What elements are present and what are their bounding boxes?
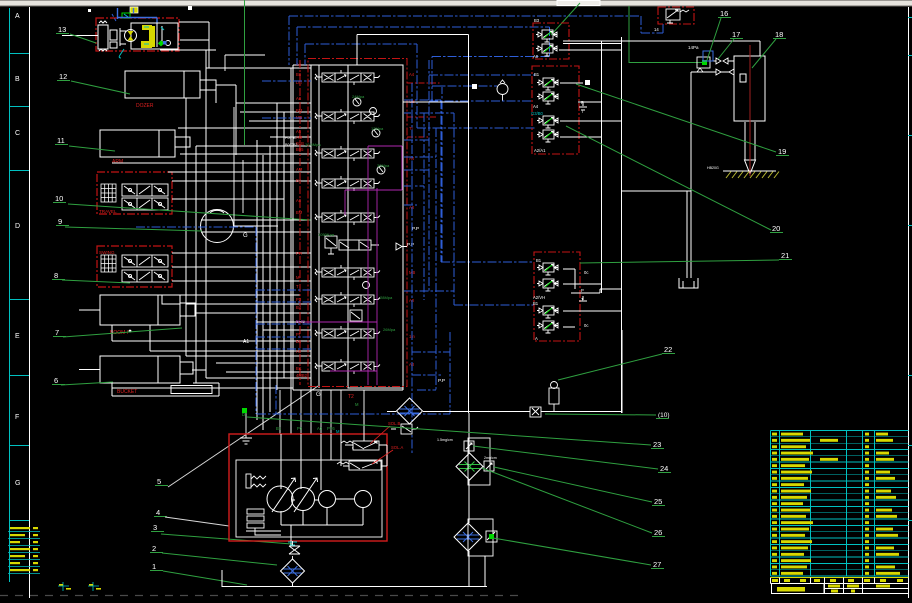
svg-text:BM: BM	[296, 210, 303, 215]
svg-text:P.P: P.P	[438, 378, 445, 384]
SOL labels	[388, 421, 404, 450]
revision marks bottom-left	[8, 527, 40, 574]
svg-text:9: 9	[58, 217, 62, 226]
svg-text:A4: A4	[409, 72, 415, 77]
valve block PT red box	[532, 66, 579, 154]
svg-text:24Mpa: 24Mpa	[352, 94, 365, 99]
swing motor circle	[201, 210, 234, 243]
svg-text:14: 14	[654, 27, 659, 32]
svg-text:A: A	[15, 13, 20, 20]
svg-text:30Mpa: 30Mpa	[377, 163, 390, 168]
unit 10 spools	[122, 184, 168, 196]
cyl6 tail boxes	[112, 383, 219, 396]
hammer feed line	[569, 41, 760, 72]
svg-text:B05: B05	[296, 147, 304, 152]
svg-text:A5: A5	[296, 129, 302, 134]
svg-text:2mg/cm: 2mg/cm	[484, 456, 497, 460]
check valve (10)	[530, 407, 541, 417]
svg-text:3: 3	[153, 523, 157, 532]
unit 13 cyan bits	[119, 27, 164, 58]
wire horizontals to manifold	[112, 22, 311, 388]
svg-text:2: 2	[152, 544, 156, 553]
svg-text:0c: 0c	[584, 323, 588, 328]
svg-text:BHC: BHC	[296, 319, 305, 324]
svg-text:A0: A0	[533, 54, 539, 59]
frame left white border	[29, 7, 31, 598]
svg-text:ARM: ARM	[112, 159, 123, 165]
bottom main lines	[222, 330, 622, 587]
svg-text:G: G	[243, 233, 248, 239]
balloon 10 leader	[53, 194, 311, 220]
manifold right port labels	[409, 72, 415, 367]
svg-text:AM: AM	[296, 167, 303, 172]
svg-text:1.5mg/cm: 1.5mg/cm	[437, 438, 453, 442]
svg-text:B3: B3	[534, 18, 540, 23]
pressure gauge circle	[497, 80, 508, 101]
check valves pair	[716, 58, 734, 75]
svg-text:21: 21	[781, 251, 789, 260]
manifold green value labels	[305, 94, 396, 332]
cyl7 left stub	[79, 309, 100, 311]
balloon 16 leader	[707, 9, 731, 60]
title block bottom	[772, 584, 909, 594]
tank return right	[622, 72, 698, 288]
svg-text:24: 24	[660, 464, 668, 473]
svg-text:4MB2: 4MB2	[296, 373, 308, 378]
pump circles	[267, 478, 372, 512]
manifold envelope	[293, 65, 403, 390]
svg-text:T2: T2	[348, 394, 354, 400]
svg-text:SOL.A: SOL.A	[391, 445, 404, 450]
manifold small relief valves	[350, 98, 407, 321]
svg-text:HB20G: HB20G	[707, 166, 719, 170]
magenta pilot lines	[305, 146, 402, 385]
cyl6 left stub	[79, 369, 100, 371]
gauge 14Pa	[697, 57, 710, 68]
balloon 11 leader	[55, 136, 115, 151]
unit 13 internals	[62, 21, 178, 51]
svg-text:(10): (10)	[658, 412, 670, 419]
svg-text:10.5Mpa: 10.5Mpa	[305, 142, 321, 147]
svg-text:TRAVEL: TRAVEL	[99, 209, 117, 214]
svg-text:B1: B1	[533, 301, 539, 306]
cylinder 12 body	[125, 71, 216, 98]
balloon 27 leader	[493, 538, 664, 569]
green stub box1	[551, 3, 580, 35]
valve block lower red box	[534, 252, 580, 341]
balloon 4 leader	[154, 508, 229, 526]
balloon 13 leader	[56, 25, 96, 43]
svg-text:8: 8	[54, 271, 58, 280]
white mark top	[188, 6, 192, 10]
svg-text:A2/A1: A2/A1	[534, 148, 546, 153]
unit 13 green valve	[158, 40, 164, 46]
table header row	[771, 577, 909, 579]
manifold red border	[308, 59, 407, 387]
svg-text:D: D	[15, 223, 20, 230]
B3 valves	[536, 30, 557, 56]
svg-text:A8: A8	[296, 96, 302, 101]
unit 13 blue feed lines	[117, 8, 157, 23]
cylinder 6 body	[100, 356, 193, 383]
svg-text:22: 22	[664, 345, 672, 354]
svg-text:7: 7	[55, 328, 59, 337]
svg-text:PI: PI	[296, 332, 300, 337]
balloon 7 leader	[53, 328, 182, 337]
T to tank below pump	[288, 542, 297, 545]
filter F1 return	[456, 453, 483, 480]
bottom gray dashed line	[0, 595, 520, 597]
svg-text:BUCKET: BUCKET	[117, 389, 137, 395]
balloon 20 leader	[566, 126, 783, 233]
blue pilot lines right	[404, 60, 535, 455]
svg-text:BM: BM	[296, 108, 303, 113]
svg-text:B: B	[15, 76, 20, 83]
manifold red dash stubs right	[407, 83, 441, 137]
balloon 3 leader	[151, 523, 292, 544]
svg-text:F: F	[15, 414, 19, 421]
node G box	[225, 55, 278, 226]
BOM table grid	[771, 431, 909, 577]
filter F4 pilot	[397, 398, 423, 424]
svg-text:A1: A1	[296, 349, 302, 354]
svg-text:16: 16	[720, 9, 728, 18]
ground line + hatch	[723, 170, 776, 172]
svg-text:AM: AM	[296, 135, 303, 140]
filter F3 suction	[281, 559, 305, 583]
green line top-left	[244, 0, 246, 145]
right main verticals	[357, 35, 622, 414]
unit 13 red box	[96, 18, 179, 51]
balloon 17 leader	[718, 30, 743, 59]
balloon 19 leader	[576, 84, 789, 156]
svg-text:5: 5	[157, 477, 161, 486]
BOM yellow text blobs	[772, 433, 900, 575]
frame left cyan border	[9, 8, 11, 582]
svg-text:P: P	[581, 100, 584, 105]
svg-text:T: T	[296, 284, 299, 289]
main relief row	[325, 236, 379, 254]
blue pilot lines top	[289, 16, 663, 128]
balloon 18 leader	[752, 30, 786, 68]
pressure switch 25	[484, 461, 494, 471]
svg-text:A8: A8	[296, 198, 302, 203]
svg-text:28Mpa: 28Mpa	[380, 295, 393, 300]
svg-text:17: 17	[732, 30, 740, 39]
svg-text:27: 27	[653, 560, 661, 569]
cylinder 7 body	[100, 295, 195, 325]
wire verticals left bus	[112, 22, 293, 434]
svg-text:14Pa: 14Pa	[688, 45, 699, 50]
balloon 2 leader	[150, 544, 277, 565]
svg-text:B4: B4	[296, 305, 302, 310]
pump port labels	[276, 402, 359, 431]
svg-text:PH: PH	[296, 251, 302, 256]
svg-text:11: 11	[57, 136, 65, 145]
top-right solenoid red box	[658, 7, 694, 24]
svg-text:Dr: Dr	[242, 412, 247, 417]
svg-text:DOZER: DOZER	[136, 103, 154, 109]
svg-text:19: 19	[778, 147, 786, 156]
filter F2 drain	[454, 523, 482, 551]
pump red box	[229, 434, 387, 541]
balloon 24 leader	[473, 446, 671, 473]
bypass valve 27	[486, 531, 497, 542]
top scrollbar	[0, 0, 912, 7]
svg-text:A: A	[535, 336, 538, 341]
balloon 22 leader	[558, 345, 675, 380]
svg-text:P: P	[581, 288, 584, 293]
svg-text:SWING: SWING	[99, 250, 115, 255]
hammer red line	[749, 45, 751, 176]
svg-text:M: M	[336, 429, 340, 434]
svg-text:A4: A4	[533, 104, 539, 109]
svg-text:12Mpa: 12Mpa	[371, 126, 384, 131]
balloon 8 leader	[52, 271, 130, 283]
svg-text:26: 26	[654, 528, 662, 537]
svg-text:M: M	[355, 402, 359, 407]
PT valves	[537, 78, 558, 142]
solenoid block B3 red box	[533, 23, 569, 59]
balloon 9 leader	[56, 217, 202, 231]
svg-text:P04 JL: P04 JL	[285, 136, 296, 140]
svg-text:P.P: P.P	[407, 242, 414, 248]
svg-text:20: 20	[772, 224, 780, 233]
cylinder 11 body	[100, 130, 190, 157]
manifold spool rows	[315, 70, 380, 374]
svg-text:4: 4	[156, 508, 160, 517]
svg-text:6: 6	[54, 376, 58, 385]
unit 13 pump yellow wedges	[128, 7, 156, 48]
pump prop valves	[337, 441, 381, 470]
svg-text:B8: B8	[296, 72, 302, 77]
svg-text:G3/B0: G3/B0	[531, 111, 544, 116]
lower valves	[537, 263, 558, 333]
svg-text:E: E	[15, 333, 20, 340]
balloon 23 leader	[247, 417, 664, 449]
svg-text:M: M	[296, 275, 300, 280]
green line to gauge 14Pa	[629, 6, 703, 63]
svg-text:B1: B1	[276, 426, 282, 431]
svg-text:BK: BK	[296, 366, 302, 371]
unit 10 hatch block	[101, 184, 116, 202]
zone letters	[15, 13, 20, 487]
pump regulator spring	[246, 474, 266, 488]
svg-text:A2/VH: A2/VH	[533, 295, 545, 300]
balloon (10) leader	[545, 412, 670, 419]
svg-text:26Mpa: 26Mpa	[383, 327, 396, 332]
manifold left port labels	[296, 62, 308, 378]
manifold red inner line	[299, 60, 301, 385]
balloon 21 leader	[580, 251, 792, 263]
svg-text:SOL.B: SOL.B	[388, 421, 401, 426]
manifold bottom ports	[280, 390, 364, 434]
svg-text:B4: B4	[296, 178, 302, 183]
unit 8 spools	[122, 255, 168, 267]
balloon 25 leader	[494, 467, 665, 506]
svg-text:B1: B1	[534, 72, 540, 77]
svg-text:1050Kpa: 1050Kpa	[318, 232, 335, 237]
pressure switch 24	[464, 441, 474, 451]
balloon 26 leader	[482, 468, 665, 537]
svg-text:18: 18	[775, 30, 783, 39]
svg-text:B1: B1	[536, 258, 542, 263]
svg-text:1: 1	[152, 562, 156, 571]
pump solenoid stack	[247, 509, 281, 535]
svg-text:P6: P6	[297, 426, 303, 431]
blue pilot lines left/bottom	[136, 81, 450, 414]
svg-text:C: C	[15, 130, 20, 137]
svg-text:13: 13	[58, 25, 66, 34]
svg-text:PT6: PT6	[327, 426, 335, 431]
svg-text:23: 23	[653, 440, 661, 449]
unit 8 hatch block	[101, 255, 116, 272]
svg-text:B1: B1	[296, 339, 302, 344]
svg-text:G: G	[15, 480, 20, 487]
pump internal wires	[246, 411, 387, 545]
balloon 1 leader	[150, 562, 247, 585]
svg-text:G: G	[316, 392, 321, 398]
svg-text:A6: A6	[317, 426, 323, 431]
svg-text:25: 25	[654, 497, 662, 506]
unit 8 red box	[97, 246, 172, 287]
svg-text:12: 12	[59, 72, 67, 81]
breaker hammer 18	[734, 56, 765, 174]
pump inner case	[236, 460, 382, 537]
svg-text:P3: P3	[296, 297, 302, 302]
svg-text:0c: 0c	[584, 270, 588, 275]
svg-text:A1: A1	[243, 339, 249, 345]
unit 10 red box	[97, 172, 172, 214]
balloon 6 leader	[52, 376, 113, 385]
Dr tank stub	[240, 413, 252, 444]
balloon 5 leader	[155, 386, 318, 487]
frame right white border	[908, 7, 910, 598]
svg-text:B0/CB2: B0/CB2	[285, 143, 297, 147]
balloon 12 leader	[57, 72, 130, 94]
unit 13 small green box top	[122, 13, 130, 18]
accumulator 22	[549, 382, 559, 412]
svg-text:10: 10	[55, 194, 63, 203]
bottom centering marks	[58, 582, 101, 591]
svg-text:P.P: P.P	[412, 226, 419, 232]
